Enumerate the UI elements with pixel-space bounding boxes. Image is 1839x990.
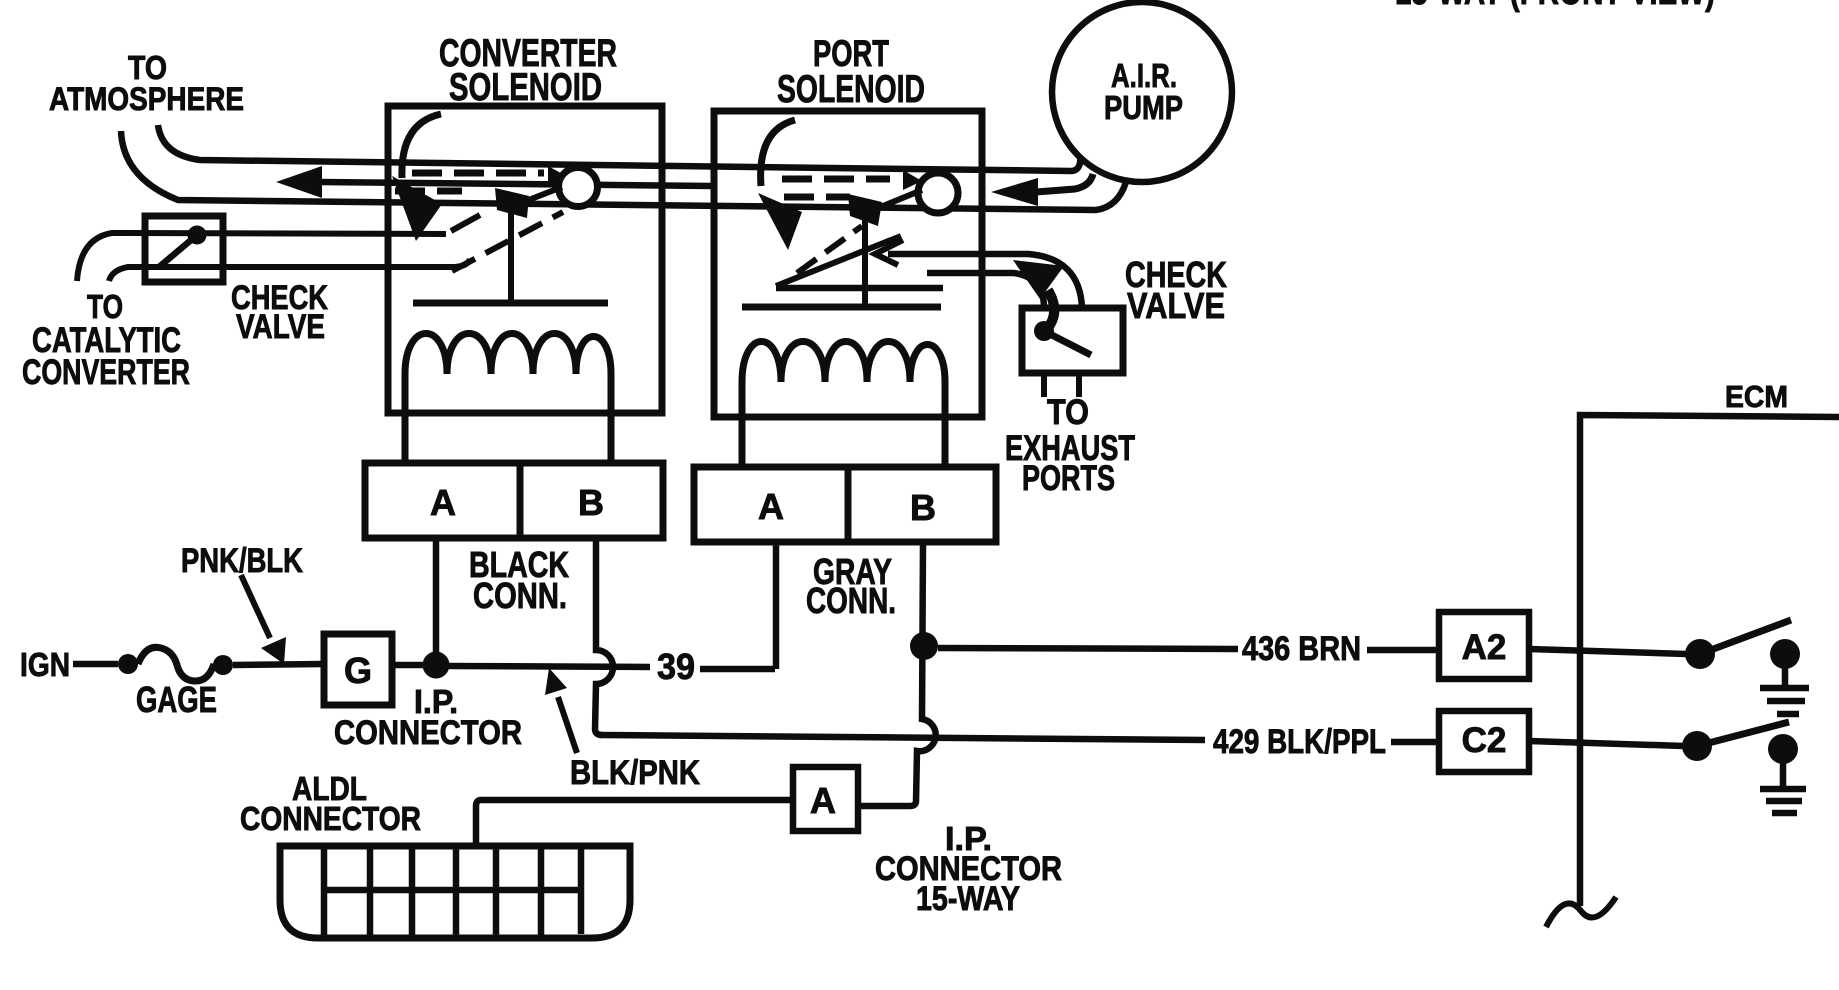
ignition junction dot xyxy=(423,652,450,679)
svg-text:CONNECTOR: CONNECTOR xyxy=(240,800,421,837)
wire G to junction xyxy=(392,662,436,669)
port plunger xyxy=(848,194,882,226)
right check valve box xyxy=(1022,308,1123,373)
ALDL grid midline xyxy=(324,887,581,894)
wire A2 to switch xyxy=(1529,649,1686,654)
svg-text:C2: C2 xyxy=(1462,721,1507,760)
IP connector 15-way terminal A box xyxy=(793,767,858,831)
converter arc arrow xyxy=(402,114,441,178)
ECM boundary xyxy=(1580,415,1839,906)
ECM break squiggle xyxy=(1546,897,1616,927)
fusible link terminal dot left xyxy=(118,654,138,674)
right check valve pipe inner wall xyxy=(927,273,1044,306)
flow arrow to atmosphere xyxy=(276,166,322,198)
atmosphere pipe top wall xyxy=(158,125,1080,171)
switch 1 pole dot xyxy=(1685,639,1715,669)
svg-text:436 BRN: 436 BRN xyxy=(1242,630,1361,668)
wire converter A to ignition junction xyxy=(433,538,440,655)
converter valve ball xyxy=(559,168,598,207)
svg-text:A2: A2 xyxy=(1462,628,1507,667)
wire gray B down with hop, to IP connector A xyxy=(858,542,936,806)
port T-bar xyxy=(742,304,941,311)
switch 2 lever xyxy=(1697,722,1789,746)
switch 1 throw dot xyxy=(1770,639,1800,669)
port solenoid coil xyxy=(742,342,945,471)
G fuse box xyxy=(324,634,392,705)
port lower pipe line xyxy=(776,285,943,292)
svg-text:CONVERTER: CONVERTER xyxy=(22,353,190,392)
wire 39 to gray A xyxy=(700,666,775,673)
svg-text:BLK/PNK: BLK/PNK xyxy=(570,754,700,792)
open arrowhead on outer wall xyxy=(875,240,903,265)
svg-text:ATMOSPHERE: ATMOSPHERE xyxy=(49,81,244,117)
converter pipe dashes row2 xyxy=(395,188,462,195)
port diagonal dashes xyxy=(797,226,862,273)
ECM terminal C2 box xyxy=(1439,711,1529,772)
svg-text:A: A xyxy=(430,482,456,523)
ground 2 xyxy=(1780,749,1787,788)
svg-text:A: A xyxy=(758,486,784,527)
svg-text:TO: TO xyxy=(1047,393,1089,432)
wire gray A down xyxy=(773,542,780,669)
svg-text:A: A xyxy=(810,780,836,821)
switch 2 throw dot xyxy=(1768,734,1798,764)
svg-text:VALVE: VALVE xyxy=(1127,285,1225,326)
ignition wire to G box xyxy=(233,664,324,665)
right check valve flow arrow xyxy=(1013,260,1064,299)
svg-text:G: G xyxy=(344,650,372,691)
wire 436 BRN xyxy=(938,648,1238,649)
right check valve lever xyxy=(1044,331,1091,355)
svg-text:15-WAY: 15-WAY xyxy=(916,880,1020,918)
port plunger stem xyxy=(862,220,868,307)
gray connector box A xyxy=(694,467,848,542)
converter diagonal dashes xyxy=(452,212,563,271)
svg-text:39: 39 xyxy=(657,646,695,687)
left check valve pivot dot xyxy=(188,226,207,245)
converter solenoid box xyxy=(388,106,662,413)
wire 429 horizontal run xyxy=(600,735,1205,740)
converter connector box B xyxy=(520,463,663,538)
svg-text:PORTS: PORTS xyxy=(1022,459,1115,498)
port pipe dashes row1 xyxy=(782,176,890,183)
port pipe dashes row2 xyxy=(784,194,850,201)
svg-text:429 BLK/PPL: 429 BLK/PPL xyxy=(1213,723,1386,761)
port vane diagonal xyxy=(776,236,901,286)
left check valve lower pipe line xyxy=(109,259,470,281)
wire A box to ALDL xyxy=(476,800,793,846)
svg-text:CONN.: CONN. xyxy=(806,580,896,621)
switch 1 lever xyxy=(1700,620,1791,654)
left check valve upper pipe line xyxy=(77,233,446,281)
gray B junction dot xyxy=(910,632,938,660)
svg-text:15-WAY (FRONT VIEW): 15-WAY (FRONT VIEW) xyxy=(1395,0,1715,13)
ignition wire left xyxy=(73,661,118,668)
fusible link squiggle xyxy=(138,647,214,681)
converter connector box A xyxy=(365,463,520,538)
svg-text:CONN.: CONN. xyxy=(473,575,567,616)
converter solenoid coil xyxy=(405,334,611,467)
pump flow arrow xyxy=(991,178,1038,206)
ALDL connector shell xyxy=(280,846,630,938)
svg-text:PUMP: PUMP xyxy=(1104,89,1183,126)
converter plunger stem xyxy=(508,210,514,303)
converter plunger xyxy=(495,188,529,218)
converter T-bar xyxy=(413,300,608,307)
ECM terminal A2 box xyxy=(1439,612,1529,679)
right check valve legs xyxy=(1041,373,1047,397)
left check valve box xyxy=(145,216,223,282)
svg-text:IGN: IGN xyxy=(20,646,70,683)
svg-text:CONNECTOR: CONNECTOR xyxy=(334,714,522,752)
ALDL grid verticals xyxy=(321,846,328,938)
wire converter B down with hop over ignition wire xyxy=(595,538,613,735)
A.I.R. pump circle xyxy=(1052,2,1232,182)
ground 1 xyxy=(1782,654,1789,687)
ignition wire to 39 xyxy=(449,666,650,667)
left check valve lever xyxy=(159,235,197,267)
svg-text:TO: TO xyxy=(87,288,123,325)
BLK/PNK pointer arrow xyxy=(558,697,577,753)
port valve ball xyxy=(918,173,958,213)
port arc arrow xyxy=(761,120,795,186)
switch 2 pole dot xyxy=(1682,731,1712,761)
converter pipe dashes row1 xyxy=(412,170,544,177)
atmosphere pipe bottom wall xyxy=(121,131,1126,210)
svg-text:ECM: ECM xyxy=(1725,379,1788,414)
svg-text:B: B xyxy=(910,487,936,528)
svg-text:B: B xyxy=(578,482,604,523)
svg-text:PNK/BLK: PNK/BLK xyxy=(181,542,303,580)
PNK/BLK pointer arrow xyxy=(241,575,270,638)
port solenoid box xyxy=(714,111,982,417)
fusible link terminal dot right xyxy=(213,655,233,675)
svg-text:SOLENOID: SOLENOID xyxy=(777,68,925,111)
wire C2 to switch xyxy=(1529,741,1684,746)
gray connector box B xyxy=(848,467,996,542)
right check valve pivot dot xyxy=(1034,321,1054,341)
svg-text:VALVE: VALVE xyxy=(236,308,325,346)
svg-text:GAGE: GAGE xyxy=(136,679,217,720)
right check valve pipe outer wall xyxy=(888,254,1082,308)
